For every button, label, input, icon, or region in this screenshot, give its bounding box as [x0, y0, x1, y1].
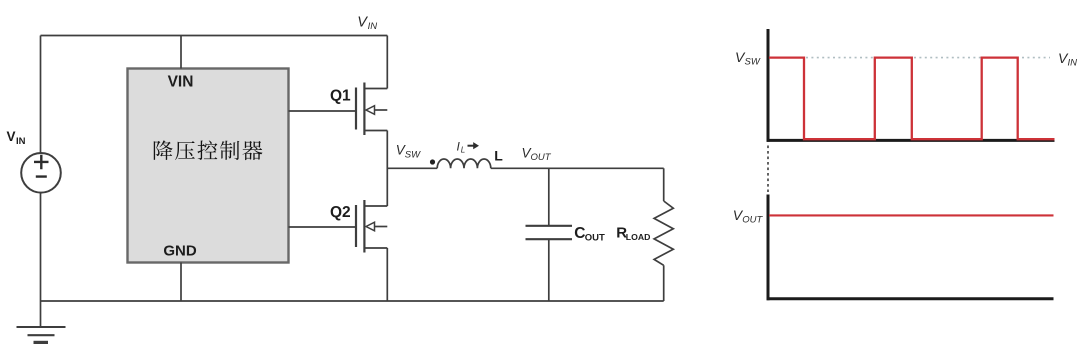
node dot V_SW	[430, 159, 435, 164]
V_IN dotted level line	[806, 57, 1050, 59]
wire V_SW to inductor	[387, 167, 437, 169]
plot1 y-axis	[767, 29, 770, 142]
svg-text:OUT: OUT	[585, 232, 605, 243]
wire capacitor bottom	[548, 239, 550, 301]
capacitor C_OUT	[526, 226, 573, 239]
wire box VIN pin	[180, 36, 182, 69]
svg-text:IN: IN	[16, 136, 26, 147]
wire left vertical lower	[40, 193, 42, 302]
svg-text:V: V	[7, 129, 16, 144]
svg-text:OUT: OUT	[742, 215, 763, 226]
svg-text:Q2: Q2	[330, 204, 351, 221]
wire resistor top	[663, 168, 665, 201]
buck controller box U1	[128, 69, 289, 263]
wire Q1 source to Q2 drain	[386, 131, 388, 207]
I_L arrow	[468, 142, 480, 149]
V_OUT waveform trace	[769, 214, 1054, 216]
svg-text:L: L	[494, 147, 503, 163]
plot1 x-axis	[767, 139, 1055, 142]
wire left vertical upper	[40, 36, 42, 154]
transistor Q2	[356, 200, 387, 253]
transistor Q1	[356, 83, 387, 136]
ground	[17, 301, 66, 343]
wire Q2 source down	[386, 248, 388, 301]
wire Q2 gate	[289, 226, 357, 228]
svg-text:VIN: VIN	[168, 73, 194, 90]
dashed time origin line	[767, 146, 769, 193]
svg-text:OUT: OUT	[531, 152, 552, 163]
wire Q1 gate	[289, 110, 357, 112]
svg-text:SW: SW	[745, 57, 761, 68]
wire L to V_OUT rail	[491, 167, 664, 169]
svg-text:LOAD: LOAD	[626, 232, 651, 242]
svg-text:IN: IN	[1068, 58, 1078, 69]
svg-text:GND: GND	[163, 243, 197, 260]
V_SW waveform trace	[769, 58, 1055, 140]
wire resistor bottom	[663, 265, 665, 301]
svg-text:SW: SW	[405, 149, 421, 160]
wire capacitor top	[548, 168, 550, 225]
plot2 x-axis	[767, 297, 1054, 300]
voltage source V_IN	[21, 153, 61, 193]
wire Q1 drain	[386, 36, 388, 89]
降压控制器 label	[154, 140, 263, 160]
inductor L	[437, 159, 491, 168]
svg-text:Q1: Q1	[330, 88, 351, 105]
wire top rail	[41, 35, 388, 37]
svg-text:IN: IN	[368, 21, 378, 32]
plot2 y-axis	[767, 195, 770, 301]
svg-text:L: L	[461, 146, 465, 155]
resistor R_LOAD	[654, 201, 673, 265]
wire box GND pin	[180, 263, 182, 302]
wire bottom rail	[41, 300, 664, 302]
